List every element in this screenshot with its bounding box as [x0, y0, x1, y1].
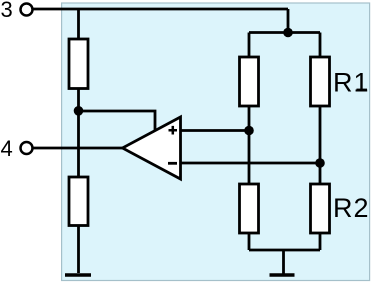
wire: top rail from pin 3 to right corner	[33, 8, 288, 11]
node: top rail junction	[283, 28, 293, 38]
node: noninverting input junction	[244, 126, 254, 136]
op-amp U1	[123, 117, 181, 179]
op-amp plus sign	[169, 126, 178, 135]
node: left bus / feedback junction	[74, 106, 84, 116]
wire: feedback from left bus to op-amp top edge	[79, 111, 156, 131]
svg-text:R1: R1	[333, 67, 370, 97]
resistor upper-left	[69, 39, 88, 89]
terminal pin 4	[21, 142, 33, 154]
svg-text:4: 4	[1, 136, 13, 161]
wire: op-amp noninverting input to divider	[181, 129, 250, 132]
wire: right drop from top rail to divider rail	[287, 9, 290, 33]
svg-text:R2: R2	[333, 193, 370, 223]
svg-text:3: 3	[1, 0, 13, 22]
wire: left vertical bus	[77, 9, 80, 273]
node: R1/R2 junction	[315, 158, 325, 168]
resistor upper-middle	[240, 57, 259, 106]
ground right	[270, 273, 295, 276]
wire: inner-left vertical bus	[248, 33, 251, 251]
op-amp minus sign	[168, 162, 177, 165]
label R1 serif foot	[357, 89, 368, 92]
resistor R1	[311, 57, 330, 106]
wire: op-amp inverting input to R1/R2 node	[181, 162, 321, 165]
resistor lower-middle	[240, 184, 259, 233]
wire: bottom rail joining lower resistors	[249, 249, 320, 252]
wire: pin 4 to op-amp output	[33, 147, 124, 150]
resistor lower-left	[69, 177, 88, 226]
wire: upper divider rail	[249, 31, 320, 34]
ground left	[65, 273, 91, 276]
wire: right vertical bus (R1/R2)	[319, 33, 322, 251]
ground right stem	[282, 250, 285, 274]
resistor R2	[311, 184, 330, 233]
terminal pin 3	[21, 4, 33, 16]
